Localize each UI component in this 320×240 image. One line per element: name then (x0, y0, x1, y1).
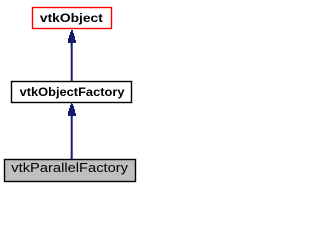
class box vtkObject (fill + label) (32, 7, 112, 29)
inheritance arrow vtkObjectFactory to vtkObject (stepped head + stem) (68, 30, 76, 43)
black border of vtkObjectFactory box (12, 82, 132, 103)
red border of vtkObject box (33, 8, 112, 29)
wire stem vtkObjectFactory to vtkObject (71, 42, 73, 81)
class box vtkParallelFactory (fill + label) (4, 159, 136, 182)
wire stem vtkParallelFactory to vtkObjectFactory (71, 115, 73, 159)
black border of vtkParallelFactory box (5, 160, 136, 182)
inheritance arrow vtkParallelFactory to vtkObjectFactory (stepped head + stem) (68, 103, 76, 116)
class box vtkObjectFactory (fill + label) (11, 81, 132, 103)
